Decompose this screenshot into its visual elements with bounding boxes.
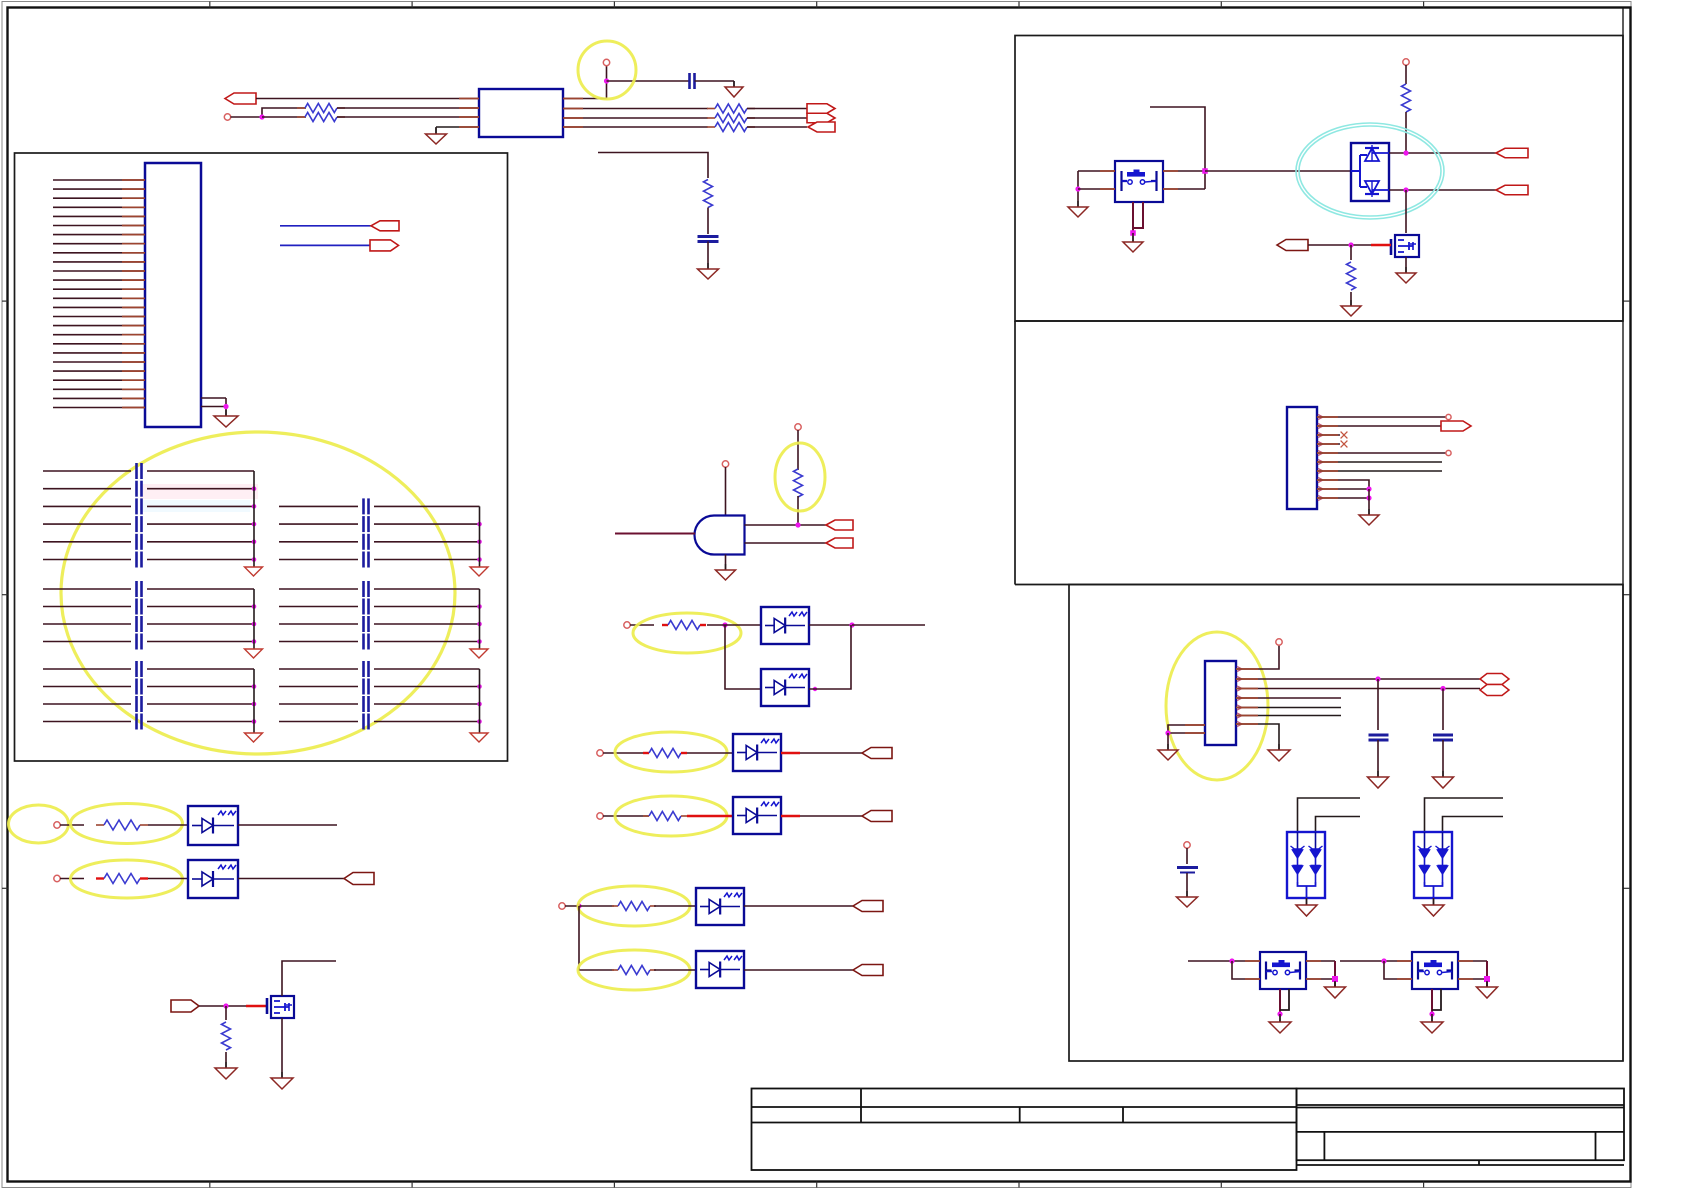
IC U1 transceiver: [479, 89, 563, 137]
ground bankL2GND: [245, 649, 263, 658]
wire bankL3 net3 left: [43, 703, 131, 705]
wire S1 case pins: [1132, 202, 1134, 232]
capacitor bankL1C1: [137, 463, 142, 479]
wire bankR3 net4 right: [374, 721, 480, 723]
wire J1 gnd vertical: [225, 398, 227, 416]
wire bankR1 net3 left: [279, 541, 358, 543]
junction bankR2J2: [477, 622, 482, 627]
optocoupler U8: [696, 951, 744, 988]
wire bankL2 net4 left: [43, 641, 131, 643]
yellow highlight R7: [775, 443, 825, 511]
wire R11 to U7: [654, 905, 696, 907]
switch S1 box: [1115, 161, 1163, 202]
ground GND6: [215, 1062, 237, 1079]
port P4: [808, 122, 835, 132]
wire bankL3 net2 left: [43, 686, 131, 688]
wire J1 pin5: [53, 215, 145, 217]
wire J2 pin5: [1317, 452, 1446, 454]
resistor R12: [612, 966, 656, 975]
port P11: [853, 901, 883, 912]
wire U7 to port: [744, 905, 853, 907]
junction bankR3J3: [477, 719, 482, 724]
port P13: [344, 873, 374, 885]
junction J21: [1229, 958, 1234, 963]
J3 pin stubs: [1237, 666, 1242, 671]
capacitor bankR1C3: [364, 534, 369, 550]
wire J1 pin6: [53, 225, 145, 227]
wire net stub top: [598, 153, 708, 179]
resistor R1: [297, 104, 345, 113]
wire Q2 source: [1405, 257, 1407, 273]
wire SW2 in: [1188, 960, 1260, 962]
wire SW3 case pins: [1431, 989, 1433, 1014]
wire U6 out red lead: [781, 815, 800, 817]
optocoupler U9: [188, 806, 238, 845]
wire bankR3 net3 right: [374, 703, 480, 705]
wire SW3 right bottom: [1458, 978, 1487, 980]
ground GND8: [1068, 201, 1088, 217]
wire R16 to U11: [1405, 112, 1407, 153]
junction J18: [1375, 676, 1380, 681]
wire bankR1 net2 left: [279, 523, 358, 525]
wire bankL2 net2 right: [147, 606, 254, 608]
wire S1 right top: [1163, 170, 1205, 172]
port P12: [853, 965, 883, 976]
wire J3 pin4: [1236, 697, 1341, 699]
wire Q1 source: [281, 1018, 283, 1078]
title block: [752, 1089, 1625, 1171]
ground GND14: [1158, 744, 1178, 760]
wire T2 hook a: [1425, 798, 1504, 832]
wire gate out2: [745, 542, 828, 544]
wire bankL2 net1 left: [43, 588, 131, 590]
wire gate red lead Q2: [1371, 244, 1391, 246]
wire bankL1 net1 left: [43, 470, 131, 472]
wire bankL1 net1 right: [147, 470, 254, 472]
wire U1 out row3: [563, 117, 708, 119]
yellow highlight circle A: [578, 41, 636, 99]
wire J3 pin7 gnd: [1236, 724, 1279, 750]
wire U11 to Q2: [1405, 190, 1407, 233]
pin node NET2: [624, 622, 630, 628]
wire J3 left pins: [1168, 725, 1205, 733]
wire NET3 to R9: [603, 752, 649, 754]
wire SW3 right top: [1458, 960, 1487, 962]
wire bankR3 net1 right: [374, 668, 480, 670]
resistor R2: [297, 113, 345, 122]
ground bankR1GND: [470, 567, 488, 576]
resistor R13: [96, 820, 148, 830]
yellow highlight empty: [9, 805, 69, 843]
ground GND15: [1368, 771, 1389, 788]
capacitor bankL1C3: [137, 498, 142, 514]
wire R4 to port: [747, 117, 807, 119]
junction bankL1J5: [252, 557, 257, 562]
wire gate top pin: [725, 467, 727, 516]
optocoupler U5: [733, 734, 781, 771]
wire U11 out1: [1389, 152, 1496, 154]
wire R8 to U3: [707, 624, 761, 626]
port P16: [1496, 185, 1528, 195]
section box top-right: [1015, 36, 1623, 322]
capacitor bankR2C4: [364, 634, 369, 650]
diode pair U11: [1351, 143, 1389, 201]
wire J1 pin23: [53, 379, 145, 381]
wire S1 left bottom: [1078, 188, 1115, 190]
wire R15 bottom: [225, 1052, 227, 1068]
pin node VCC4: [1403, 59, 1409, 65]
ground GND22: [1477, 981, 1498, 998]
ground GND12: [1359, 509, 1379, 525]
capacitor bankL3C1: [137, 661, 142, 677]
wire SW2 right bottom: [1306, 978, 1335, 980]
capacitor bankL3C4: [137, 714, 142, 730]
ground GND11: [1396, 267, 1416, 283]
wire bankL1 net6 left: [43, 559, 131, 561]
transistor Q1 nmos: [267, 996, 294, 1018]
wire J3 pin1: [1236, 645, 1279, 669]
wire J1 pin8: [53, 243, 145, 245]
port P7: [826, 520, 853, 530]
highlight blue band: [140, 500, 250, 512]
wire U5 out red lead: [781, 752, 800, 754]
junction J12: [1130, 230, 1136, 236]
section box mid-right: [1015, 321, 1623, 585]
wire J1 pin11: [53, 270, 145, 272]
junction J1: [259, 114, 264, 119]
wire NET7 to R14: [60, 878, 84, 880]
ground GND10: [1341, 300, 1361, 316]
junction bankL3J2: [252, 702, 257, 707]
wire U10 to port: [238, 878, 344, 880]
wire bankL1 net4 left: [43, 523, 131, 525]
wire case to gnd: [1132, 233, 1134, 242]
wire bankL3 net4 left: [43, 721, 131, 723]
wire bankL2 net2 left: [43, 606, 131, 608]
wire U1 out row1: [563, 98, 607, 100]
wire bankR2 net1 right: [374, 588, 480, 590]
ground GND1: [426, 128, 447, 144]
yellow highlight R14: [71, 860, 183, 898]
port P3: [807, 113, 835, 123]
wire C4 gnd: [1442, 740, 1444, 777]
right column edge line: [1622, 8, 1624, 1061]
junction J16: [1366, 486, 1371, 491]
junction J25: [1484, 976, 1490, 982]
wire J1 pin12: [53, 279, 145, 281]
J2 pin stubs: [1318, 414, 1323, 419]
connector J1 34-pin: [145, 163, 201, 427]
pin node end5: [1446, 450, 1451, 455]
resistor R15: [222, 1022, 231, 1050]
wire J1 pin18: [53, 334, 145, 336]
ground bankL1GND: [245, 567, 263, 576]
capacitor bankR2C2: [364, 599, 369, 615]
wire NET2 to R8: [630, 624, 654, 626]
wire T2 hook b: [1443, 817, 1504, 833]
wire C2 to GND3: [707, 242, 709, 270]
wire R6 to C2: [707, 208, 709, 235]
port P1: [225, 93, 256, 104]
capacitor bankL1C2: [137, 481, 142, 497]
wire J1 pin3: [53, 197, 145, 199]
capacitor bankL1C4: [137, 516, 142, 532]
wire bankL1 net2 right: [147, 488, 254, 490]
junction bankR2J3: [477, 639, 482, 644]
wire bankR2 net3 left: [279, 623, 358, 625]
port P19: [1480, 674, 1509, 685]
ground GND3: [698, 263, 719, 279]
wire J1 pin21: [53, 361, 145, 363]
optocoupler U6: [733, 797, 781, 834]
junction J6: [849, 622, 854, 627]
wire bankL2 net3 left: [43, 623, 131, 625]
pin lead stubs overlay: [122, 99, 1473, 980]
pin node NET4: [597, 813, 603, 819]
junction J17: [1366, 495, 1371, 500]
wire R9 to U5: [687, 752, 733, 754]
wire power stub V1: [606, 64, 608, 99]
wire J2 pin7: [1317, 470, 1442, 472]
section box bottom-right: [1069, 585, 1623, 1062]
junction bankR3J2: [477, 702, 482, 707]
wire SW3 in: [1340, 960, 1412, 962]
ground GND23: [1421, 1016, 1443, 1033]
wire C5 top: [1186, 848, 1188, 864]
wire R17 top: [1350, 245, 1352, 260]
wire J2 pin2: [1317, 425, 1442, 427]
capacitor bankL3C2: [137, 679, 142, 695]
optocoupler U10: [188, 860, 238, 898]
capacitor bankR3C1: [364, 661, 369, 677]
junction bankL1J4: [252, 540, 257, 545]
resistor R8: [662, 621, 706, 630]
wire bankR3 net2 left: [279, 686, 358, 688]
port P20: [1480, 685, 1509, 696]
capacitor C5: [1177, 868, 1198, 873]
junction J19: [1440, 686, 1445, 691]
wire NET4 to R10: [603, 815, 649, 817]
port P6: [370, 240, 399, 251]
capacitor C2: [698, 237, 719, 242]
pin node NET6: [54, 822, 60, 828]
port P15: [1496, 148, 1528, 158]
wire gate out1: [745, 524, 828, 526]
wire J1 gnd pin b: [201, 406, 226, 408]
wire from NET1: [231, 116, 263, 118]
ground GND17: [1177, 891, 1198, 907]
yellow highlight R12: [578, 950, 690, 990]
wire J1 pin4: [53, 206, 145, 208]
wire SW2 left loop: [1232, 961, 1260, 979]
wire bankR1 net4 left: [279, 559, 358, 561]
wire bankR1 net3 right: [374, 541, 480, 543]
wire bankR3 bus: [479, 669, 481, 733]
wire R15 top: [225, 1006, 227, 1020]
transistor Q2 nmos: [1391, 235, 1419, 257]
port P14: [171, 1000, 199, 1012]
pin node VCC1: [603, 59, 609, 65]
junction bankL1J3: [252, 522, 257, 527]
wire SW2 right vertical: [1334, 961, 1336, 987]
wire J3 pin2: [1236, 678, 1480, 680]
wire J3 left gnd: [1167, 733, 1169, 750]
pin node VCC5: [1276, 639, 1282, 645]
ground GND16: [1433, 771, 1454, 788]
wire bankL3 net1 right: [147, 668, 254, 670]
wire J1 pin16: [53, 316, 145, 318]
wire bankL1 bus: [253, 471, 255, 567]
wire C1 to gnd corner: [695, 80, 735, 82]
junction J24: [1381, 958, 1386, 963]
wire bankR3 net2 right: [374, 686, 480, 688]
pin node NET3: [597, 750, 603, 756]
wire SW3 left loop: [1384, 961, 1412, 979]
wire R3 to port: [747, 108, 807, 110]
wire P17 to gate Q2: [1308, 244, 1371, 246]
wire J3 pin3: [1236, 688, 1480, 690]
wire U1 out row2: [563, 108, 708, 110]
wire pullup bottom: [797, 496, 799, 525]
wire bankL3 net2 right: [147, 686, 254, 688]
wire R12 to U8: [654, 969, 696, 971]
junction J4: [795, 522, 800, 527]
connector J3 8-pin: [1205, 661, 1236, 745]
wire SW3 right vertical: [1486, 961, 1488, 987]
ground GND21: [1269, 1016, 1291, 1033]
wire down to GND2: [733, 81, 735, 87]
wire U9 out: [238, 824, 337, 826]
wire hook top: [1150, 107, 1205, 171]
wire bankR2 net3 right: [374, 623, 480, 625]
wire Q1 drain: [282, 961, 336, 996]
switch SW3: [1412, 952, 1458, 989]
wire S1 left top: [1078, 170, 1115, 172]
junction bankL2J1: [252, 604, 257, 609]
wire port stub blue a: [280, 225, 372, 227]
resistor R6: [704, 180, 713, 208]
wire J1 pin15: [53, 306, 145, 308]
port P2: [807, 104, 835, 114]
wire SW2 case gnd: [1279, 1014, 1281, 1022]
ground GND20: [1325, 981, 1346, 998]
diode array D2: [1414, 832, 1452, 898]
wire bankL2 net1 right: [147, 588, 254, 590]
junction bankR1J3: [477, 557, 482, 562]
wire pin4 down: [435, 127, 437, 134]
wire bankR2 net2 right: [374, 606, 480, 608]
wire pullup top: [797, 430, 799, 470]
cyan highlight ellipse: [1296, 123, 1444, 219]
resistor R9: [643, 749, 687, 758]
highlight pink band: [140, 484, 258, 499]
wire bankL1 net3 right: [147, 505, 254, 507]
wire bankR3 net1 left: [279, 668, 358, 670]
wire NET1 to R2: [262, 116, 306, 118]
junction bankL1J2: [252, 504, 257, 509]
wire bankR3 net4 left: [279, 721, 358, 723]
wire C3 drop: [1377, 679, 1379, 730]
junction J9: [223, 1003, 228, 1008]
wire C5 gnd: [1186, 873, 1188, 897]
wire J1 pin9: [53, 252, 145, 254]
capacitor bankL2C1: [137, 581, 142, 597]
wire NET5 to R11: [565, 905, 614, 907]
wire bankR2 net1 left: [279, 588, 358, 590]
junction bankL1J1: [252, 486, 257, 491]
junction J26: [1429, 1011, 1434, 1016]
port P10: [862, 811, 892, 822]
wire bankL2 net4 right: [147, 641, 254, 643]
wire J1 pin22: [53, 370, 145, 372]
wire bankL1 net2 left: [43, 488, 131, 490]
wire J1 pin1: [53, 179, 145, 181]
junction J22: [1332, 976, 1338, 982]
wire U4 out: [809, 625, 851, 689]
optocoupler U7: [696, 888, 744, 925]
wire bankR1 net4 right: [374, 559, 480, 561]
capacitor bankR1C4: [364, 552, 369, 568]
ground GND4: [214, 410, 238, 427]
wire gate red lead: [246, 1005, 267, 1008]
junction bankL2J3: [252, 639, 257, 644]
wire J1 pin20: [53, 352, 145, 354]
wire J3 pin5: [1236, 707, 1341, 709]
pin node VCC2: [722, 461, 728, 467]
wire NET6 to R13: [60, 824, 84, 826]
junction bankL3J3: [252, 719, 257, 724]
resistor R10: [643, 812, 687, 821]
wire J2 pin8: [1317, 480, 1369, 489]
wire J2 pin6: [1317, 461, 1442, 463]
wire U11 out2: [1389, 189, 1496, 191]
wire bankL3 net4 right: [147, 721, 254, 723]
nc mark pin3: [1341, 432, 1348, 439]
resistor R4: [707, 114, 755, 123]
wire J2 pin4: [1317, 443, 1340, 445]
section box left: [15, 153, 508, 761]
pin node VCC3: [795, 424, 801, 430]
port P18: [1441, 421, 1471, 431]
capacitor bankL1C5: [137, 534, 142, 550]
junction J13: [1403, 150, 1408, 155]
wire J2 pin10: [1317, 497, 1369, 499]
capacitor bankR1C2: [364, 516, 369, 532]
yellow highlight R13: [71, 804, 183, 844]
wire bankL2 net3 right: [147, 623, 254, 625]
wire bankL1 net3 left: [43, 505, 131, 507]
wire J1 pin2: [53, 188, 145, 190]
wire R2 to U1 pin3: [337, 116, 479, 118]
ground GND19: [1423, 899, 1444, 916]
wire bankL1 net6 right: [147, 559, 254, 561]
pin node NET1: [224, 114, 230, 120]
ground bankR2GND: [470, 649, 488, 658]
wire SW3 case gnd: [1431, 1014, 1433, 1022]
wire J1 pin17: [53, 325, 145, 327]
junction J3: [223, 404, 228, 409]
wire J1 pin14: [53, 297, 145, 299]
capacitor bankL2C3: [137, 616, 142, 632]
wire branch row5: [579, 906, 614, 970]
wire bankL3 bus: [253, 669, 255, 733]
wire bankL1 net4 right: [147, 523, 254, 525]
resistor R3: [707, 104, 755, 113]
junction J7: [813, 687, 817, 691]
wire gate bottom pin: [725, 555, 727, 571]
yellow highlight J3: [1166, 632, 1268, 780]
wire bankR2 net4 left: [279, 641, 358, 643]
